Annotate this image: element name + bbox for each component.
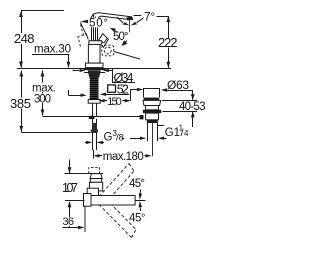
svg-text:4: 4	[184, 129, 189, 138]
svg-text:107: 107	[62, 181, 78, 195]
node line end block at drain	[140, 115, 144, 119]
svg-text:Ø63: Ø63	[167, 78, 189, 92]
svg-text:150: 150	[107, 96, 122, 108]
label 52 underline with arrow	[100, 93, 130, 96]
label G1 1/4 leader	[157, 125, 164, 127]
node countertop line	[17, 68, 171, 70]
faucet handle solid	[98, 34, 109, 48]
label Ø34 box lines	[112, 68, 135, 83]
wire top extension line	[21, 10, 64, 12]
swivel range dashed band lower	[99, 200, 136, 238]
plan view top reference line	[65, 173, 104, 175]
plan view spout bar	[91, 196, 135, 206]
text square 52	[108, 85, 116, 92]
wire leader from dashed detail	[114, 52, 140, 60]
svg-text:300: 300	[34, 94, 51, 106]
dimension 36	[63, 207, 85, 233]
svg-text:52: 52	[117, 82, 129, 96]
drain plug cap	[144, 88, 160, 98]
dimension 107	[68, 160, 72, 228]
svg-text:45°: 45°	[129, 213, 146, 225]
svg-text:50°: 50°	[113, 31, 129, 43]
drain tailpipe	[148, 123, 158, 141]
text 385	[10, 98, 33, 109]
svg-text:45°: 45°	[129, 178, 145, 190]
wire water stream line	[129, 20, 131, 32]
mounting washer below counter	[84, 70, 106, 73]
dimension 222	[166, 16, 170, 68]
drain thread nut dark	[147, 120, 158, 123]
45 degree arc arrows	[139, 190, 142, 212]
svg-text:40-53: 40-53	[179, 101, 206, 113]
drain upper body	[146, 106, 159, 110]
dimension max.30 pointer	[32, 55, 70, 68]
detail dashed handle end view	[102, 45, 114, 56]
text max. 300	[31, 83, 56, 93]
svg-text:222: 222	[158, 35, 178, 50]
text 248	[14, 33, 36, 44]
dimension arrows at shank	[68, 90, 86, 97]
drain seal ring dark	[143, 110, 162, 113]
faucet spout aerator	[126, 17, 132, 20]
dimension 150	[98, 90, 131, 103]
dimension 385	[19, 71, 23, 132]
drain flange	[143, 100, 161, 105]
dimension 40-53	[162, 90, 197, 127]
svg-text:/8: /8	[116, 133, 124, 144]
arrow pair at drain tail	[122, 137, 167, 140]
plan view handle dashed	[89, 168, 100, 174]
swivel range dashed band upper	[99, 164, 134, 203]
dimension 248	[19, 11, 23, 68]
label 50 degrees upper leader	[80, 20, 88, 39]
svg-text:385: 385	[10, 96, 31, 111]
label 50 degrees lower leaders	[110, 28, 128, 46]
threaded shank	[88, 78, 100, 104]
plan view cartridge	[89, 182, 102, 191]
svg-text:50°: 50°	[89, 18, 108, 30]
faucet handle dashed alternate position	[78, 25, 90, 47]
plan view body neck	[87, 188, 98, 195]
wire max.300 bottom reference line	[43, 116, 140, 118]
svg-text:7°: 7°	[144, 10, 155, 24]
text 107	[61, 182, 79, 193]
wire plan view left centerline	[65, 200, 85, 202]
plan view spout bar cap	[84, 194, 92, 207]
faucet vertical pipe	[92, 15, 98, 41]
svg-text:248: 248	[14, 31, 35, 46]
mounting nut hatched	[88, 70, 101, 77]
wire centerline stub	[135, 200, 145, 202]
7 degree angle V arrows	[117, 17, 144, 25]
faucet spout arm	[92, 13, 133, 20]
drain lower body	[146, 113, 159, 120]
dimension max.180 arrows	[93, 154, 152, 157]
wire 385 bottom reference line	[21, 132, 90, 134]
svg-text:max.180: max.180	[103, 151, 144, 163]
label 7 degrees leader	[134, 16, 169, 17]
drain rim dark	[144, 98, 160, 101]
dimension arrows at hose	[85, 141, 104, 144]
svg-text:max.30: max.30	[34, 44, 71, 56]
drain pull rod centerline	[152, 123, 154, 156]
supply pipes below shank	[93, 103, 97, 116]
text 222	[158, 38, 179, 48]
svg-text:36: 36	[63, 216, 75, 228]
dimension arrows at base	[73, 69, 113, 72]
svg-text:G: G	[104, 132, 113, 144]
dimension Ø63	[130, 88, 193, 92]
text 50 degrees upper	[89, 18, 109, 28]
supply hose fitting G3/8	[89, 116, 98, 159]
faucet body	[85, 41, 103, 68]
plan view handle	[90, 174, 102, 183]
text 36	[62, 218, 75, 227]
dimension max.300	[41, 71, 45, 116]
